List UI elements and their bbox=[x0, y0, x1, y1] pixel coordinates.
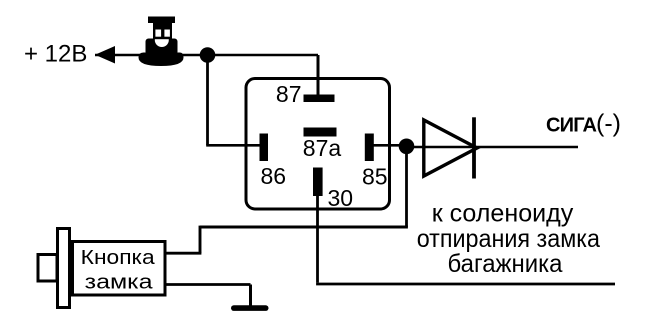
svg-text:87: 87 bbox=[276, 81, 302, 107]
fuse F1 holder notch bbox=[155, 33, 169, 47]
relay pin 87a bar bbox=[304, 128, 337, 137]
wire: +12V top rail bbox=[95, 54, 318, 57]
wire: into button top terminal bbox=[165, 252, 201, 255]
ground stem bbox=[249, 285, 252, 307]
wire: bottom rail to solenoid bbox=[316, 283, 615, 286]
wire: node B through diode to SIGA bbox=[407, 146, 579, 148]
wire: node A down to pin 86 level bbox=[206, 55, 209, 145]
fuse F1 holder dome bbox=[139, 53, 184, 67]
fuse F1 window right bbox=[164, 30, 170, 37]
diode VD1 cathode bar bbox=[472, 117, 476, 178]
svg-text:замка: замка bbox=[85, 272, 154, 294]
fuse F1 window left bbox=[155, 30, 161, 37]
relay pin 86 bar bbox=[260, 134, 269, 162]
fuse F1 body bbox=[153, 23, 172, 39]
wire: vertical drop to relay pin 87 bbox=[317, 55, 320, 98]
svg-text:к соленоиду: к соленоиду bbox=[432, 200, 574, 228]
wire: button bottom terminal to ground bbox=[165, 283, 251, 286]
svg-text:85: 85 bbox=[362, 164, 388, 190]
relay pin 87 bar bbox=[304, 95, 335, 103]
button S1 actuator bbox=[38, 255, 57, 282]
fuse F1 holder block bbox=[146, 39, 178, 56]
svg-text:30: 30 bbox=[328, 185, 354, 211]
wire: into relay pin 86 bbox=[206, 144, 262, 147]
svg-text:багажника: багажника bbox=[448, 250, 563, 278]
svg-text:+ 12В: + 12В bbox=[24, 41, 87, 68]
svg-text:СИГА: СИГА bbox=[546, 115, 596, 137]
relay pin 30 bar bbox=[313, 168, 323, 197]
diode VD1 triangle bbox=[424, 120, 477, 176]
fuse F1 top cap bbox=[148, 17, 175, 24]
wire: pin 30 down bbox=[316, 196, 319, 283]
power arrow bbox=[95, 46, 115, 64]
wire: pin 85 to node B bbox=[373, 144, 406, 147]
wire: step down to button level bbox=[199, 226, 202, 254]
relay pin 85 bar bbox=[365, 134, 374, 162]
button S1 box bbox=[73, 242, 166, 296]
svg-text:Кнопка: Кнопка bbox=[81, 247, 156, 269]
node A junction dot bbox=[200, 47, 216, 63]
svg-text:отпирания замка: отпирания замка bbox=[417, 225, 600, 253]
wire: horizontal run to button (upper) bbox=[200, 226, 408, 229]
svg-text:(-): (-) bbox=[596, 110, 621, 138]
ground bar bbox=[231, 305, 269, 311]
button S1 plate bbox=[58, 229, 70, 308]
wire: node B down bbox=[405, 150, 408, 227]
svg-text:86: 86 bbox=[261, 163, 287, 189]
relay K1 outline bbox=[246, 79, 390, 210]
node B junction dot bbox=[399, 139, 415, 155]
svg-text:87а: 87а bbox=[303, 135, 342, 161]
